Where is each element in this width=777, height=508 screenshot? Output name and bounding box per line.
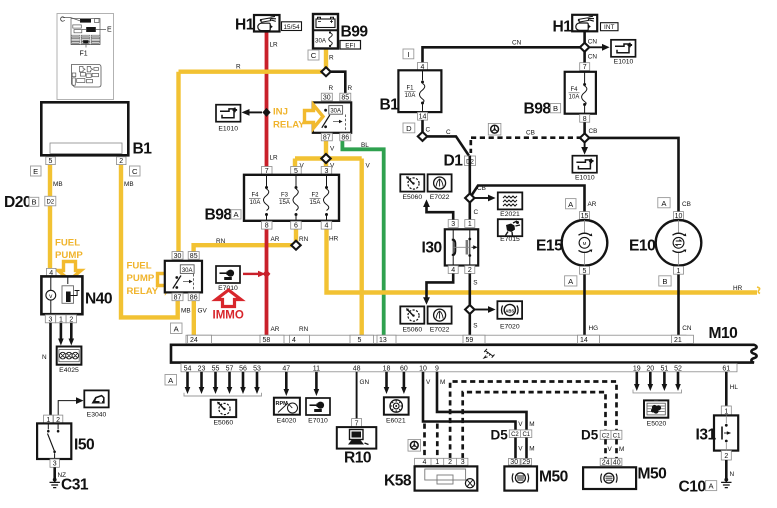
svg-text:E7022: E7022 — [430, 194, 450, 201]
svg-text:M: M — [619, 446, 624, 453]
arrow I30 pin4 down to E5060/E7022 (lower) — [427, 274, 454, 299]
wire V (thick) pin 10 to D5 — [423, 372, 516, 430]
heated rear window E2021 — [498, 192, 523, 218]
svg-text:ABS: ABS — [505, 308, 514, 313]
arrow pin 47 to E4020 — [285, 372, 288, 390]
FUEL PUMP label — [55, 238, 83, 262]
wire GN pin 48 to R10 — [356, 372, 358, 419]
arrow to E7020 — [474, 309, 489, 311]
svg-text:3: 3 — [49, 316, 53, 323]
svg-text:1: 1 — [468, 221, 472, 228]
svg-text:1: 1 — [677, 268, 681, 275]
svg-text:GV: GV — [198, 308, 208, 315]
svg-text:N40: N40 — [85, 291, 113, 308]
fuel pump relay — [165, 252, 202, 302]
svg-text:61: 61 — [722, 365, 730, 372]
wire R (yellow) rail to fuel pump relay pin 30 — [176, 72, 180, 255]
instrument cluster K58 — [384, 458, 477, 490]
wire GV (yellow) fuel pump relay pin 86 to M10 pin 24 — [192, 301, 196, 336]
svg-text:58: 58 — [263, 337, 271, 344]
ground E1010 (left) on LR wire — [216, 105, 271, 133]
svg-text:2: 2 — [724, 453, 728, 460]
svg-text:PUMP: PUMP — [127, 273, 155, 284]
svg-text:15A: 15A — [310, 200, 321, 206]
svg-text:AR: AR — [588, 201, 597, 208]
svg-text:CN: CN — [588, 54, 598, 61]
svg-text:4: 4 — [423, 459, 427, 466]
svg-text:RN: RN — [216, 238, 226, 245]
svg-text:E: E — [107, 27, 112, 34]
svg-text:I: I — [407, 50, 409, 59]
svg-text:I30: I30 — [422, 240, 443, 257]
svg-text:5: 5 — [358, 337, 362, 344]
terminal block E4025 — [57, 347, 82, 375]
svg-text:30A: 30A — [330, 109, 341, 115]
svg-text:C2: C2 — [511, 432, 519, 438]
immobilizer key E7010 (bottom) — [306, 398, 330, 425]
svg-text:MB: MB — [124, 181, 134, 188]
icon E7015 — [498, 219, 523, 243]
svg-text:V: V — [518, 446, 523, 453]
dashed wires D5 to M50 (right) — [606, 439, 617, 458]
svg-text:E1010: E1010 — [575, 175, 595, 182]
svg-text:85: 85 — [341, 95, 349, 102]
svg-text:6: 6 — [294, 223, 298, 230]
svg-text:B98: B98 — [205, 207, 233, 224]
svg-text:3: 3 — [53, 461, 57, 468]
svg-text:E6021: E6021 — [386, 418, 406, 425]
node D1-CB junction — [465, 194, 474, 203]
svg-text:MB: MB — [181, 308, 191, 315]
svg-text:4: 4 — [324, 223, 328, 230]
svg-text:56: 56 — [239, 365, 247, 372]
svg-text:52: 52 — [674, 365, 682, 372]
svg-text:8: 8 — [265, 223, 269, 230]
svg-text:H1: H1 — [553, 19, 573, 36]
svg-text:CN: CN — [588, 39, 598, 46]
svg-text:24: 24 — [602, 459, 610, 466]
svg-text:B99: B99 — [341, 24, 369, 41]
svg-text:14: 14 — [580, 337, 588, 344]
svg-text:R: R — [236, 64, 241, 71]
svg-text:30: 30 — [510, 459, 518, 466]
svg-text:C31: C31 — [61, 477, 89, 494]
svg-text:H1: H1 — [235, 17, 255, 34]
wire NZ — [53, 467, 56, 479]
arrow I30 pin3 up to E5060/E7022 — [427, 206, 454, 220]
svg-text:IMMO: IMMO — [213, 310, 244, 322]
svg-text:C1: C1 — [522, 432, 530, 438]
wire CN E10 pin 1 to M10 pin 21 — [677, 274, 680, 336]
svg-text:E1010: E1010 — [218, 126, 238, 133]
svg-text:F1: F1 — [406, 86, 414, 92]
svg-text:48: 48 — [353, 365, 361, 372]
brake warning E7020 — [497, 301, 522, 330]
fuel pump relay arrow — [158, 268, 177, 291]
steering column icon — [488, 123, 501, 135]
svg-text:M: M — [583, 241, 587, 246]
svg-text:B1: B1 — [133, 141, 153, 158]
gauge E7022 (upper) — [428, 174, 452, 201]
svg-text:51: 51 — [661, 365, 669, 372]
svg-text:E10: E10 — [629, 238, 656, 255]
wire CB dashed D1 to B98-B — [471, 138, 585, 153]
svg-text:2: 2 — [468, 267, 472, 274]
wire HL pin 61 to I31 — [725, 372, 728, 406]
svg-text:30: 30 — [323, 95, 331, 102]
svg-text:19: 19 — [633, 365, 641, 372]
svg-text:N: N — [42, 354, 47, 361]
wire V (yellow) INJ relay pin 87 to B98-A pins 5,3 and M10 pin 5 — [295, 141, 362, 337]
svg-text:F2: F2 — [311, 193, 319, 199]
fuel pump arrow — [58, 262, 81, 281]
fuel pump unit N40 — [41, 268, 113, 323]
sensor E6021 — [384, 397, 409, 424]
wiper motor E10 — [629, 198, 701, 286]
rev counter E4020 — [274, 398, 300, 425]
svg-text:BL: BL — [361, 142, 369, 149]
wire HG E15 pin 5 to M10 pin 14 — [583, 274, 586, 336]
arrows pins 19,20,51,52 to E5020 — [633, 372, 682, 393]
svg-text:CN: CN — [682, 325, 692, 332]
IMMO arrow — [216, 290, 241, 307]
heater fan motor E15 — [536, 199, 607, 286]
door contact E3040 — [58, 390, 109, 418]
wire HR (yellow) B98-A pin 4 to right edge — [327, 229, 758, 293]
svg-text:F3: F3 — [281, 193, 289, 199]
svg-text:C: C — [132, 167, 138, 176]
arrows N40 pins 1,2 to E4025 — [58, 323, 74, 346]
dashed wires to K58 pins 4,1 — [425, 424, 438, 459]
svg-text:15A: 15A — [279, 200, 290, 206]
svg-text:RN: RN — [299, 326, 309, 333]
ignition switch H1 (15/54) — [235, 15, 302, 34]
svg-text:D2: D2 — [46, 200, 54, 206]
svg-text:53: 53 — [253, 365, 261, 372]
svg-text:CB: CB — [526, 130, 535, 137]
svg-text:D5: D5 — [581, 428, 599, 443]
injection relay arrow — [305, 105, 324, 128]
connector D5 (left) — [491, 421, 535, 453]
svg-text:55: 55 — [212, 365, 220, 372]
svg-text:C: C — [60, 17, 65, 24]
svg-text:LR: LR — [270, 42, 279, 49]
M10 top pin strip — [186, 335, 694, 344]
svg-text:M: M — [529, 421, 534, 428]
connector D20 — [4, 194, 56, 211]
svg-text:24: 24 — [190, 337, 198, 344]
svg-text:V: V — [608, 446, 613, 453]
ECU M10 — [171, 325, 757, 363]
svg-text:INJ: INJ — [273, 107, 288, 118]
wire R (yellow) B99 to junction and rail — [179, 48, 327, 72]
svg-text:20: 20 — [646, 365, 654, 372]
svg-text:29: 29 — [522, 459, 530, 466]
svg-text:F1: F1 — [80, 51, 88, 58]
speedometer E5060 (upper) — [400, 174, 424, 201]
svg-text:RELAY: RELAY — [273, 120, 305, 131]
svg-text:8: 8 — [583, 116, 587, 123]
arrow to E2021 — [474, 197, 489, 199]
wire S I30 pin2 to M10 pin 59 — [468, 274, 471, 337]
battery B99 with 30A fuse — [308, 14, 368, 60]
svg-text:57: 57 — [226, 365, 234, 372]
svg-text:F4: F4 — [570, 87, 578, 93]
node CB junction — [580, 133, 589, 142]
svg-text:HG: HG — [589, 325, 599, 332]
svg-text:N: N — [730, 471, 735, 478]
svg-text:2: 2 — [119, 158, 123, 165]
svg-text:V: V — [366, 163, 371, 170]
relay I30 — [422, 220, 479, 275]
svg-text:FUEL: FUEL — [127, 261, 152, 272]
svg-text:RPM: RPM — [276, 401, 289, 407]
node B1-D junction — [418, 132, 427, 141]
ground E1010 (top right) — [590, 40, 636, 66]
svg-text:C: C — [426, 127, 431, 134]
svg-text:10: 10 — [419, 365, 427, 372]
diagnostic connector R10 — [337, 419, 377, 467]
switch I50 — [37, 415, 95, 468]
svg-text:INT: INT — [604, 24, 614, 31]
svg-text:30: 30 — [174, 253, 182, 260]
svg-text:D: D — [406, 124, 412, 133]
node RN junction — [291, 241, 300, 250]
svg-text:M10: M10 — [709, 325, 739, 342]
svg-text:R: R — [329, 55, 334, 62]
svg-text:E5020: E5020 — [647, 421, 667, 428]
svg-text:23: 23 — [198, 365, 206, 372]
svg-text:E7015: E7015 — [500, 236, 520, 243]
svg-text:4: 4 — [451, 267, 455, 274]
svg-text:B1: B1 — [380, 97, 400, 114]
arrows pins 18,60 to E6021 — [387, 372, 404, 388]
FUEL PUMP RELAY label — [127, 261, 159, 298]
svg-text:D20: D20 — [4, 194, 32, 211]
svg-text:E1010: E1010 — [614, 59, 634, 66]
svg-text:C: C — [474, 209, 479, 216]
svg-text:3: 3 — [461, 459, 465, 466]
svg-text:R: R — [348, 85, 353, 92]
node R junction — [321, 67, 330, 76]
svg-text:60: 60 — [400, 365, 408, 372]
svg-text:E3040: E3040 — [87, 412, 107, 419]
svg-text:E7010: E7010 — [308, 418, 328, 425]
injection relay — [313, 93, 351, 141]
svg-text:2: 2 — [448, 459, 452, 466]
svg-text:HR: HR — [733, 285, 743, 292]
svg-text:D5: D5 — [491, 428, 509, 443]
ignition switch H1 (INT) — [553, 15, 619, 36]
connector label A (bottom) — [165, 375, 177, 386]
svg-text:E15: E15 — [536, 238, 563, 255]
svg-text:3: 3 — [451, 221, 455, 228]
svg-text:9: 9 — [435, 365, 439, 372]
svg-text:R10: R10 — [344, 450, 372, 467]
svg-text:59: 59 — [466, 337, 474, 344]
wires D5 to M50 (left) — [516, 438, 527, 459]
ABS pump motor M50 (left) — [504, 459, 568, 491]
svg-text:I31: I31 — [696, 427, 717, 444]
svg-text:E4020: E4020 — [277, 418, 297, 425]
svg-text:D1: D1 — [444, 153, 464, 170]
svg-text:18: 18 — [383, 365, 391, 372]
svg-text:47: 47 — [282, 365, 290, 372]
fuse box B98 connector A — [205, 167, 340, 230]
ground C31 — [50, 477, 89, 494]
svg-text:RN: RN — [299, 236, 309, 243]
svg-text:CB: CB — [477, 185, 486, 192]
svg-text:11: 11 — [313, 365, 320, 372]
svg-text:30A: 30A — [182, 268, 193, 274]
fuse F4 box B98 connector B — [524, 63, 596, 123]
svg-text:CB: CB — [589, 128, 598, 135]
svg-text:1: 1 — [59, 316, 63, 323]
wire N I31 to ground C10 — [725, 460, 728, 479]
svg-text:E5060: E5060 — [213, 420, 233, 427]
svg-text:C: C — [311, 51, 317, 60]
svg-text:14: 14 — [419, 114, 427, 121]
arrows pins 54-53 to E5060 — [184, 372, 262, 396]
gauge E7022 (lower) — [428, 306, 452, 333]
immobilizer unit E7010 with code key — [216, 266, 270, 292]
svg-text:MB: MB — [53, 181, 63, 188]
wire R (black) junction to INJ relay pin 85 — [326, 72, 345, 94]
svg-text:86: 86 — [190, 295, 198, 302]
fuse panel inset — [57, 14, 114, 100]
speedometer E5060 (bottom) — [211, 400, 237, 427]
wire M (thick) pin 9 to D5 — [437, 372, 527, 430]
svg-text:FUEL: FUEL — [55, 238, 80, 249]
connector D5 (right) — [581, 428, 624, 453]
svg-text:V: V — [518, 421, 523, 428]
node CN junction — [580, 43, 589, 52]
svg-text:B: B — [553, 104, 558, 113]
svg-text:PUMP: PUMP — [55, 250, 83, 261]
svg-text:10A: 10A — [405, 93, 416, 99]
svg-text:87: 87 — [323, 135, 331, 142]
svg-text:S: S — [473, 280, 477, 287]
svg-text:EFI: EFI — [345, 42, 355, 49]
wire BL (green) INJ relay pin 86 to M10 pin 13 — [342, 141, 383, 337]
svg-text:30A: 30A — [315, 38, 327, 45]
svg-text:13: 13 — [379, 337, 387, 344]
wire N N40 pin3 to I50 — [49, 323, 52, 415]
svg-text:87: 87 — [174, 295, 182, 302]
svg-text:M: M — [440, 379, 445, 386]
svg-text:B98: B98 — [524, 101, 552, 118]
svg-text:F4: F4 — [251, 193, 259, 199]
svg-text:V: V — [330, 146, 335, 153]
steering column icon (lower) — [408, 440, 421, 452]
svg-text:C2: C2 — [602, 434, 610, 440]
wire MB (yellow) B1 pin2 to fuel pump relay pin 87 — [121, 165, 178, 318]
svg-text:C10: C10 — [679, 479, 707, 496]
wire C to D1 — [423, 120, 469, 155]
svg-text:M50: M50 — [539, 469, 569, 486]
svg-text:5: 5 — [583, 268, 587, 275]
svg-text:I50: I50 — [74, 437, 95, 454]
svg-text:GN: GN — [360, 379, 370, 386]
switch I31 — [696, 406, 739, 460]
wire CB (black) B98-B to E10 pin 10 — [585, 122, 679, 212]
svg-text:HR: HR — [329, 236, 339, 243]
dashed wire K58 pin3 to D5 C2 (right) — [463, 392, 606, 458]
ground C10 — [679, 478, 732, 496]
svg-text:E5060: E5060 — [402, 194, 422, 201]
svg-text:S: S — [473, 323, 477, 330]
svg-text:E4025: E4025 — [59, 367, 79, 374]
svg-text:10A: 10A — [250, 200, 261, 206]
svg-text:85: 85 — [190, 253, 198, 260]
svg-text:2: 2 — [69, 316, 73, 323]
ABS pump motor M50 (right) — [583, 458, 667, 489]
svg-text:C1: C1 — [613, 434, 621, 440]
svg-text:1: 1 — [435, 459, 439, 466]
ground E1010 (mid right) — [572, 142, 597, 182]
connector D1 / D2 — [444, 153, 476, 170]
wire CB D1 junction to I30 and E15 — [470, 156, 585, 220]
svg-text:B: B — [31, 198, 36, 207]
svg-text:E7022: E7022 — [430, 327, 450, 334]
svg-text:CN: CN — [512, 40, 522, 47]
svg-text:E2021: E2021 — [500, 211, 520, 218]
svg-text:15/54: 15/54 — [284, 24, 300, 31]
svg-text:HL: HL — [730, 384, 739, 391]
speedometer E5060 (lower) — [400, 306, 424, 333]
wire AR (red) B98-A pin 8 to M10 pin 58 — [265, 229, 269, 336]
node V junction — [321, 154, 330, 163]
svg-text:AR: AR — [271, 326, 280, 333]
wire LR (red) H1 to B98-A pin 7 — [265, 32, 269, 167]
svg-text:B: B — [662, 277, 667, 286]
wire CN (black) B1 pin4 to H1 junction — [423, 32, 585, 63]
connector label A (top) — [171, 323, 183, 334]
dashed wire K58 pin2 to D5 C1 (right) — [450, 382, 616, 459]
svg-text:R: R — [329, 85, 334, 92]
svg-text:21: 21 — [674, 337, 682, 344]
svg-text:K58: K58 — [384, 473, 412, 490]
wire MB (yellow) B1 pin5 to N40 pin4 — [48, 165, 52, 269]
svg-text:7: 7 — [583, 64, 587, 71]
svg-text:5: 5 — [49, 158, 53, 165]
svg-text:V: V — [426, 379, 431, 386]
M10 bottom pin strip — [181, 364, 737, 373]
svg-text:E7020: E7020 — [500, 324, 520, 331]
svg-text:LR: LR — [270, 155, 279, 162]
svg-text:54: 54 — [184, 365, 192, 372]
svg-text:M: M — [529, 446, 534, 453]
arrow pin 11 to E7010 — [315, 372, 318, 390]
svg-text:CB: CB — [682, 201, 691, 208]
ECU B1 — [31, 102, 153, 176]
fuse F1 box B1 — [380, 49, 442, 133]
control unit E5020 — [644, 400, 668, 427]
svg-text:RELAY: RELAY — [127, 286, 159, 297]
svg-text:4: 4 — [292, 337, 296, 344]
svg-text:40: 40 — [613, 459, 621, 466]
svg-text:E5060: E5060 — [402, 327, 422, 334]
svg-text:C: C — [446, 129, 451, 136]
svg-text:M50: M50 — [638, 466, 668, 483]
svg-text:10A: 10A — [569, 95, 580, 101]
svg-text:86: 86 — [341, 135, 349, 142]
svg-text:AR: AR — [271, 236, 280, 243]
svg-text:E: E — [33, 167, 38, 176]
wire RN (yellow) B98 pin6 to fuel pump relay pin 85 — [194, 229, 296, 254]
